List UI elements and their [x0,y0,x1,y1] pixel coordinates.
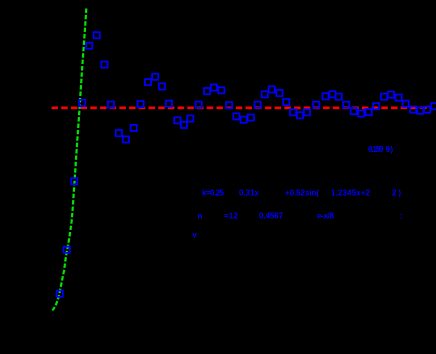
svg-text:0.159: 0.159 [368,145,384,154]
green dashed curve [52,9,86,311]
svg-text:0.4567: 0.4567 [259,212,284,221]
svg-text:9): 9) [386,145,394,154]
svg-text:1.2345x+2: 1.2345x+2 [331,189,371,198]
svg-text:k=0.25: k=0.25 [202,189,225,198]
svg-text:n: n [198,212,203,221]
svg-text:=12: =12 [224,212,239,221]
svg-text:e-x/8: e-x/8 [317,212,335,221]
svg-text:0.31x: 0.31x [239,189,260,198]
svg-text:v: v [192,231,197,240]
blue annotation texts [192,145,402,240]
blue data squares [57,32,436,297]
svg-text:+0.52sin(: +0.52sin( [285,189,319,198]
svg-text::: : [400,212,403,221]
red dashed asymptote line [52,107,428,110]
